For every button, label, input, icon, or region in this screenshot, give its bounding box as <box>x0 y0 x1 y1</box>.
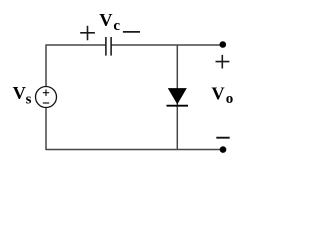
wire left vertical upper (corner to source top) <box>45 44 47 86</box>
diode D1 triangle (anode) <box>168 88 187 104</box>
wire diode branch vertical <box>176 45 178 150</box>
wire left vertical lower (source bottom to bottom corner) <box>45 107 47 150</box>
wire top-right horizontal (capacitor right plate to top terminal) <box>112 44 223 46</box>
output plus polarity <box>216 55 230 69</box>
source minus sign <box>43 102 49 104</box>
diode cathode bar <box>167 105 189 107</box>
wire top-left horizontal (source top to capacitor left plate) <box>46 44 105 46</box>
capacitor left plate <box>105 37 107 56</box>
svg-text:V: V <box>211 84 225 104</box>
source plus sign <box>43 90 49 96</box>
bottom output terminal node <box>220 146 227 153</box>
capacitor plus polarity <box>80 26 95 40</box>
capacitor minus polarity <box>123 31 140 33</box>
svg-text:o: o <box>226 91 234 107</box>
top output terminal node <box>220 41 227 48</box>
svg-text:V: V <box>13 83 27 103</box>
output minus polarity <box>216 137 229 139</box>
svg-text:s: s <box>26 92 32 108</box>
svg-text:c: c <box>113 18 120 34</box>
voltage source V_s circle <box>36 87 57 108</box>
capacitor right plate <box>110 37 112 56</box>
wire bottom horizontal <box>46 149 223 151</box>
svg-text:V: V <box>99 10 113 30</box>
